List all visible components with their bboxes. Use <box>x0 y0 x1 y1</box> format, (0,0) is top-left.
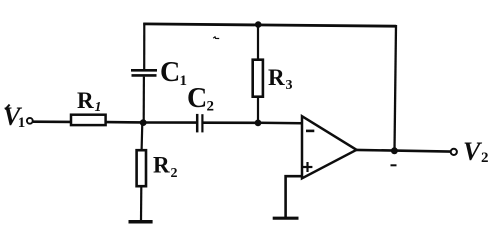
wire node A to C1 <box>143 77 145 123</box>
svg-text:R: R <box>268 65 285 90</box>
label V2 <box>463 137 489 166</box>
capacitor C1 <box>131 70 157 75</box>
wire op-amp plus input <box>286 176 302 217</box>
svg-text:R: R <box>153 153 170 178</box>
resistor R3 <box>253 60 263 97</box>
op-amp U1 <box>302 116 357 178</box>
svg-text:2: 2 <box>207 99 215 115</box>
label C2 <box>187 83 214 115</box>
svg-text:2: 2 <box>481 150 489 166</box>
wire node B to op-amp <box>258 122 302 125</box>
node B <box>255 120 262 127</box>
wire node A to R2 <box>141 123 144 151</box>
svg-text:1: 1 <box>18 115 26 131</box>
label R3 <box>268 65 293 93</box>
terminal V1 <box>27 118 33 124</box>
svg-text:2: 2 <box>171 166 178 181</box>
node output <box>391 147 398 154</box>
wire input <box>33 120 71 123</box>
resistor R2 <box>137 150 146 186</box>
wire C2 to node B <box>204 121 259 124</box>
svg-text:R: R <box>77 88 94 113</box>
wire R3 top stub <box>257 25 259 61</box>
svg-text:3: 3 <box>286 78 293 93</box>
wire top rail <box>143 24 396 26</box>
svg-text:C: C <box>187 83 207 114</box>
svg-text:C: C <box>160 57 180 88</box>
wire R2 bottom stub <box>140 186 143 222</box>
label R2 <box>153 153 178 182</box>
label R1 <box>77 88 102 115</box>
terminal V2 <box>451 149 457 155</box>
capacitor C2 <box>197 114 202 132</box>
wire C1 to top rail <box>143 23 145 69</box>
node A <box>140 119 147 126</box>
resistor R1 <box>71 115 106 125</box>
minus mark at output <box>391 164 397 166</box>
node top junction <box>255 21 262 28</box>
svg-text:V: V <box>463 137 483 166</box>
svg-text:1: 1 <box>180 73 188 89</box>
wire feedback <box>395 25 397 151</box>
ground R2 <box>129 220 153 224</box>
wire R1 to node A <box>106 121 144 124</box>
svg-text:1: 1 <box>95 100 102 115</box>
wire node A to C2 <box>144 121 197 124</box>
wire R3 bottom stub <box>257 97 259 123</box>
ground op-amp <box>273 217 299 220</box>
label C1 <box>160 57 187 89</box>
wire output <box>356 150 451 152</box>
label V1 <box>3 102 25 131</box>
